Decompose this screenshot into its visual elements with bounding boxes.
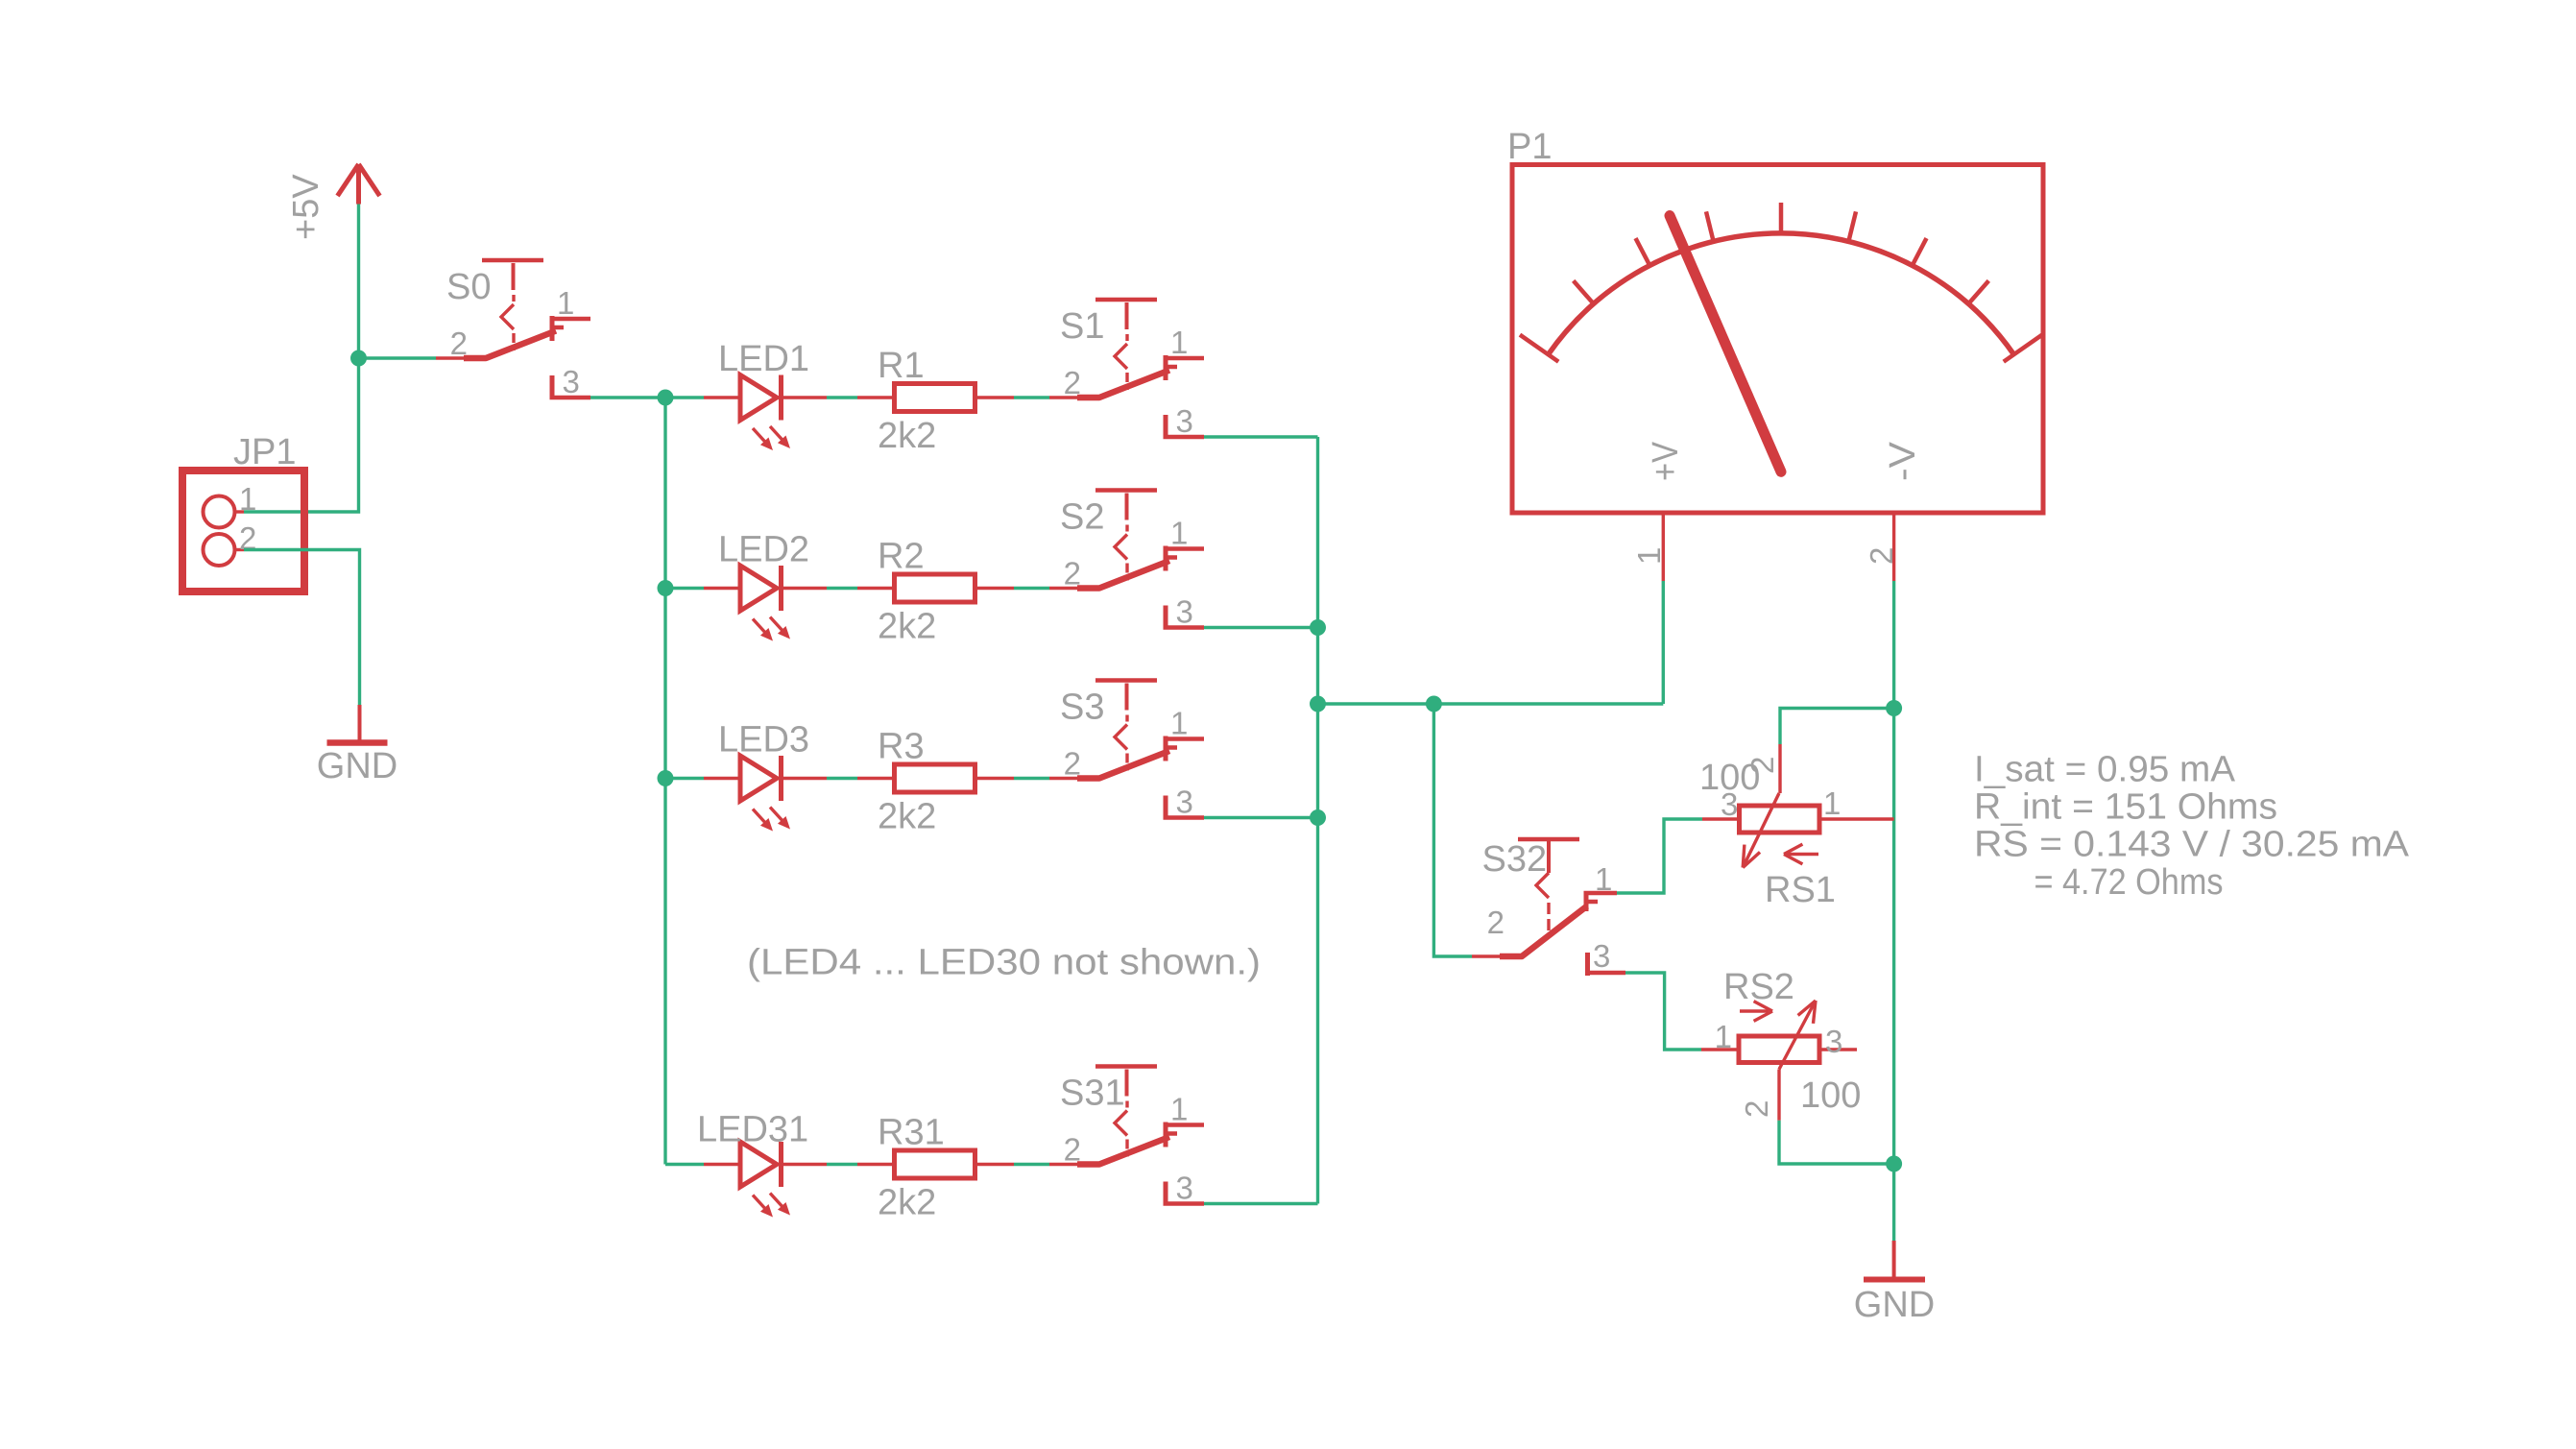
LED LED31 — [704, 1142, 827, 1218]
svg-text:2k2: 2k2 — [878, 607, 936, 647]
wire S3 pin 3 to trunk — [1204, 816, 1318, 819]
wire node A to JP1 pin 1 — [244, 358, 359, 512]
wire bus to LED31 — [665, 1163, 704, 1166]
wire JP1 pin 2 to GND — [244, 550, 360, 706]
svg-text:LED2: LED2 — [718, 530, 809, 570]
LED LED1 — [704, 375, 827, 451]
svg-text:2k2: 2k2 — [878, 797, 936, 837]
svg-text:I_sat = 0.95 mA: I_sat = 0.95 mA — [1974, 750, 2236, 790]
wire S2 pin 3 to trunk — [1204, 626, 1318, 629]
wire bus to LED1 — [665, 396, 704, 398]
svg-text:1: 1 — [1715, 1019, 1732, 1054]
svg-text:GND: GND — [317, 746, 397, 786]
wire R31 to S31 — [1014, 1163, 1049, 1166]
wire node A to S0 pin 2 — [359, 356, 437, 359]
svg-text:RS = 0.143 V / 30.25 mA: RS = 0.143 V / 30.25 mA — [1974, 825, 2410, 865]
meter P1 — [1512, 165, 2043, 582]
svg-text:2: 2 — [1864, 547, 1899, 565]
svg-text:R3: R3 — [878, 727, 925, 767]
svg-text:P1: P1 — [1507, 127, 1552, 167]
svg-text:2k2: 2k2 — [878, 416, 936, 456]
svg-text:3: 3 — [1176, 594, 1193, 630]
svg-text:S3: S3 — [1060, 688, 1104, 728]
wire R1 to S1 — [1014, 396, 1049, 398]
switch S31 — [1049, 1067, 1204, 1206]
trimmer RS2 — [1701, 1001, 1857, 1121]
wire S1 pin 3 to trunk — [1204, 435, 1318, 438]
wire bus to LED2 — [665, 587, 704, 590]
svg-text:RS2: RS2 — [1723, 967, 1794, 1007]
svg-text:R_int = 151 Ohms: R_int = 151 Ohms — [1974, 787, 2277, 828]
junction rail RS2 branch — [1886, 1156, 1902, 1172]
junction LED bus row 2 — [658, 580, 674, 596]
wire LED2 to R2 — [827, 587, 857, 590]
svg-text:3: 3 — [1593, 938, 1610, 974]
junction rail RS1 branch — [1886, 700, 1902, 716]
svg-text:S32: S32 — [1482, 839, 1548, 880]
svg-text:1: 1 — [1823, 785, 1841, 821]
connector JP1 — [182, 471, 304, 592]
svg-text:+V: +V — [1646, 441, 1686, 481]
svg-text:2: 2 — [1064, 1132, 1081, 1168]
wire LED3 to R3 — [827, 777, 857, 780]
switch S1 — [1049, 300, 1204, 439]
svg-text:LED31: LED31 — [697, 1110, 808, 1150]
svg-text:2: 2 — [1745, 757, 1780, 774]
ground GND (left) — [327, 705, 388, 743]
junction trunk row 3 — [1310, 809, 1326, 826]
wire RS2 pin 2 to rail — [1779, 1121, 1894, 1164]
wire W1 to S32 pin 2 — [1433, 704, 1472, 956]
svg-text:-V: -V — [1883, 441, 1923, 481]
wire meter pin 1 drop — [1662, 581, 1665, 704]
junction W1 S32 branch — [1426, 696, 1442, 712]
wire trunk vertical — [1316, 437, 1319, 1204]
svg-text:+5V: +5V — [286, 174, 326, 240]
svg-text:100: 100 — [1800, 1075, 1861, 1116]
junction node A — [350, 350, 367, 367]
svg-text:3: 3 — [1176, 785, 1193, 820]
svg-text:= 4.72 Ohms: = 4.72 Ohms — [2034, 862, 2224, 903]
junction LED bus row 3 — [658, 770, 674, 786]
svg-text:3: 3 — [1721, 786, 1738, 822]
svg-text:1: 1 — [239, 481, 256, 517]
svg-text:1: 1 — [1170, 706, 1188, 741]
wire bus to LED3 — [665, 777, 704, 780]
svg-text:1: 1 — [557, 285, 574, 321]
LED LED3 — [704, 756, 827, 832]
wire LED31 to R31 — [827, 1163, 857, 1166]
junction trunk row 2 — [1310, 619, 1326, 636]
svg-text:2: 2 — [1739, 1100, 1774, 1118]
svg-text:3: 3 — [1176, 1171, 1193, 1206]
wire LED1 to R1 — [827, 396, 857, 398]
wire R3 to S3 — [1014, 777, 1049, 780]
switch S32 — [1472, 839, 1625, 976]
svg-text:1: 1 — [1595, 861, 1612, 897]
wire +5V to node A — [357, 205, 360, 359]
trimmer RS1 — [1702, 744, 1894, 868]
wire S0 pin 3 to LED bus — [590, 396, 665, 398]
svg-text:S1: S1 — [1060, 306, 1104, 347]
resistor R2 — [857, 574, 1014, 602]
svg-text:S2: S2 — [1060, 497, 1104, 538]
svg-text:3: 3 — [1825, 1024, 1842, 1059]
svg-text:1: 1 — [1170, 325, 1188, 360]
svg-text:R31: R31 — [878, 1113, 945, 1153]
svg-text:1: 1 — [1170, 516, 1188, 551]
wire LED bus vertical — [663, 398, 666, 1165]
svg-text:JP1: JP1 — [233, 432, 296, 472]
svg-text:S0: S0 — [446, 267, 491, 307]
resistor R31 — [857, 1150, 1014, 1178]
svg-text:2: 2 — [1064, 556, 1081, 592]
svg-text:2: 2 — [1487, 905, 1505, 940]
resistor R3 — [857, 764, 1014, 792]
wire R2 to S2 — [1014, 587, 1049, 590]
svg-text:S31: S31 — [1060, 1074, 1125, 1114]
wire S31 pin 3 to trunk — [1204, 1202, 1318, 1205]
wire trunk to meter pin 1 — [1318, 702, 1664, 705]
svg-text:R1: R1 — [878, 346, 925, 386]
svg-text:3: 3 — [1176, 403, 1193, 439]
svg-text:1: 1 — [1170, 1092, 1188, 1127]
junction trunk W1 — [1310, 696, 1326, 712]
switch S3 — [1049, 681, 1204, 820]
wire meter pin 2 rail — [1892, 581, 1895, 1241]
svg-text:R2: R2 — [878, 537, 925, 577]
svg-text:1: 1 — [1631, 547, 1667, 565]
svg-text:RS1: RS1 — [1765, 870, 1836, 910]
LED LED2 — [704, 566, 827, 641]
svg-text:2: 2 — [1064, 365, 1081, 400]
svg-text:(LED4 ... LED30 not shown.): (LED4 ... LED30 not shown.) — [747, 943, 1261, 983]
wire S32 pin 1 to RS1 pin 3 — [1617, 819, 1702, 893]
svg-text:LED1: LED1 — [718, 339, 809, 379]
wire S32 pin 3 to RS2 pin 1 — [1625, 973, 1701, 1050]
svg-text:2: 2 — [450, 326, 468, 361]
svg-text:2: 2 — [1064, 746, 1081, 782]
wire rail to RS1 pin 2 — [1780, 709, 1894, 745]
switch S2 — [1049, 491, 1204, 630]
switch S0 — [436, 260, 590, 399]
svg-text:3: 3 — [563, 364, 580, 399]
svg-text:LED3: LED3 — [718, 720, 809, 761]
supply +5V symbol — [338, 164, 380, 205]
svg-text:2k2: 2k2 — [878, 1183, 936, 1223]
ground GND (right) — [1864, 1241, 1925, 1280]
resistor R1 — [857, 384, 1014, 412]
junction LED bus row 1 — [658, 390, 674, 406]
svg-text:GND: GND — [1854, 1285, 1935, 1325]
